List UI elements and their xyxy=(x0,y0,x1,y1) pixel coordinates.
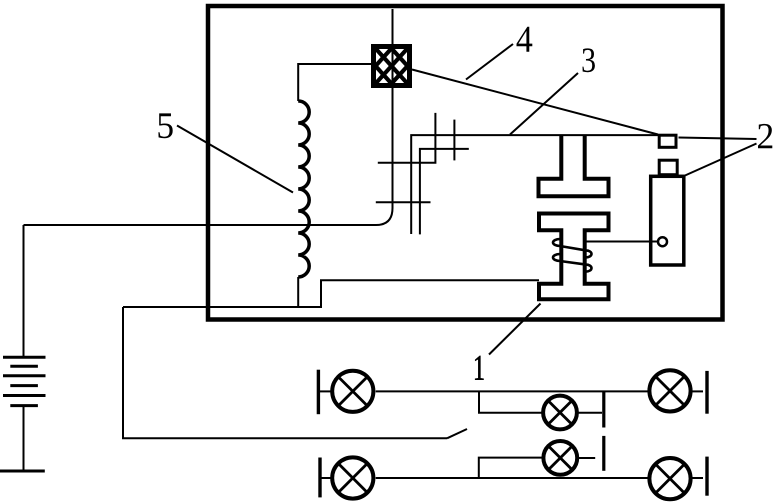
solenoid top contact square xyxy=(659,135,676,147)
contact plate mirror L xyxy=(378,113,436,163)
row 2 contact bar xyxy=(602,436,605,471)
label 3 xyxy=(583,48,595,72)
battery lower lead wire xyxy=(23,406,25,471)
coil bottom lead xyxy=(297,277,299,308)
label 2 xyxy=(758,124,772,148)
row 1 branch to repeater lamp xyxy=(479,391,542,412)
row 1 repeater lamp xyxy=(543,396,602,430)
flasher unit enclosure box xyxy=(208,6,723,320)
armature 1 (I-beam) xyxy=(539,214,609,300)
leader line 4 xyxy=(466,44,513,80)
row 1 contact bar xyxy=(602,392,605,428)
lamp row 2 left lamp xyxy=(321,457,373,498)
ring terminal on solenoid xyxy=(658,237,667,246)
turn-signal switch blade xyxy=(447,429,467,438)
leader line 2 lower xyxy=(685,144,757,176)
wire resistor to relay coil top xyxy=(298,64,371,101)
lamp row 1 left lamp xyxy=(320,371,373,412)
contact tick horizontal xyxy=(376,201,431,203)
leader line 5 xyxy=(177,126,293,193)
leader line 2 upper xyxy=(679,138,757,140)
label 4 xyxy=(517,27,533,52)
relay coil 5 xyxy=(298,101,309,277)
battery upper lead wire xyxy=(23,225,25,356)
contact tick vertical xyxy=(453,120,455,161)
wire low run to step xyxy=(123,280,539,307)
leader line 3 xyxy=(510,73,578,135)
solenoid body 2 xyxy=(651,176,684,265)
ground terminal plate xyxy=(0,470,45,473)
label 5 xyxy=(158,113,172,138)
lamp row 2: left terminal bar xyxy=(318,458,321,498)
lamp row 2 right lamp xyxy=(649,458,703,499)
wire armature to solenoid ring xyxy=(587,241,658,243)
row 1 main wire xyxy=(376,390,649,392)
return spring on armature stem xyxy=(553,239,592,272)
lamp row 1 right lamp xyxy=(649,370,703,411)
fixed contact 3 (inverted T) xyxy=(539,135,609,196)
fixed contact bracket outer L xyxy=(411,135,658,234)
row 2 main wire xyxy=(376,477,649,479)
battery GB xyxy=(3,357,46,405)
lamp row 1: right terminal bar xyxy=(705,371,708,414)
fixed contact bracket inner L xyxy=(420,149,469,235)
resistor 4 (cross-hatched box) xyxy=(367,39,414,93)
lamp row 1: left terminal bar xyxy=(317,370,320,415)
wire battery to resistor (horizontal run y=225) xyxy=(24,9,393,225)
label 1 xyxy=(475,356,483,380)
lamp row 2: right terminal bar xyxy=(705,457,708,496)
row 2 repeater lamp xyxy=(543,441,595,475)
solenoid neck xyxy=(659,160,677,175)
wire from junction down to turn switch xyxy=(123,307,447,438)
leader line 1 xyxy=(489,304,541,355)
wire resistor to contact square (diagonal) xyxy=(412,70,658,135)
row 2 branch to repeater lamp xyxy=(479,458,542,478)
